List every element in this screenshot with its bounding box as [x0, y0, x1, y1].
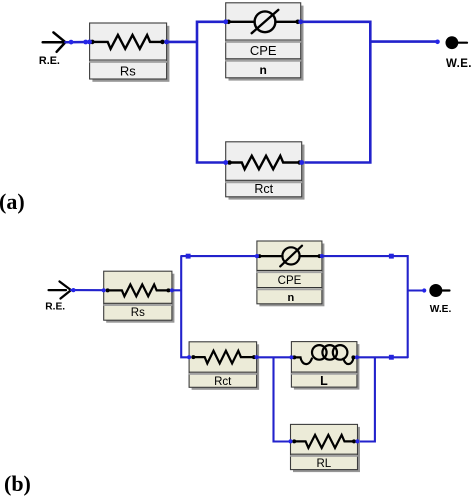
svg-text:Rs: Rs — [131, 307, 145, 319]
svg-text:(a): (a) — [0, 189, 25, 214]
svg-text:L: L — [320, 374, 328, 388]
svg-text:n: n — [260, 63, 267, 77]
svg-text:(b): (b) — [4, 471, 31, 496]
svg-text:Rs: Rs — [120, 63, 136, 78]
svg-text:CPE: CPE — [278, 275, 302, 287]
svg-text:RL: RL — [316, 458, 331, 470]
svg-text:R.E.: R.E. — [39, 55, 60, 67]
svg-text:Rct: Rct — [214, 376, 232, 388]
svg-text:n: n — [288, 292, 295, 304]
svg-text:W.E.: W.E. — [430, 304, 452, 315]
svg-text:CPE: CPE — [250, 43, 277, 58]
svg-text:Rct: Rct — [254, 182, 273, 196]
svg-text:R.E.: R.E. — [45, 302, 65, 313]
svg-text:W.E.: W.E. — [446, 58, 472, 70]
